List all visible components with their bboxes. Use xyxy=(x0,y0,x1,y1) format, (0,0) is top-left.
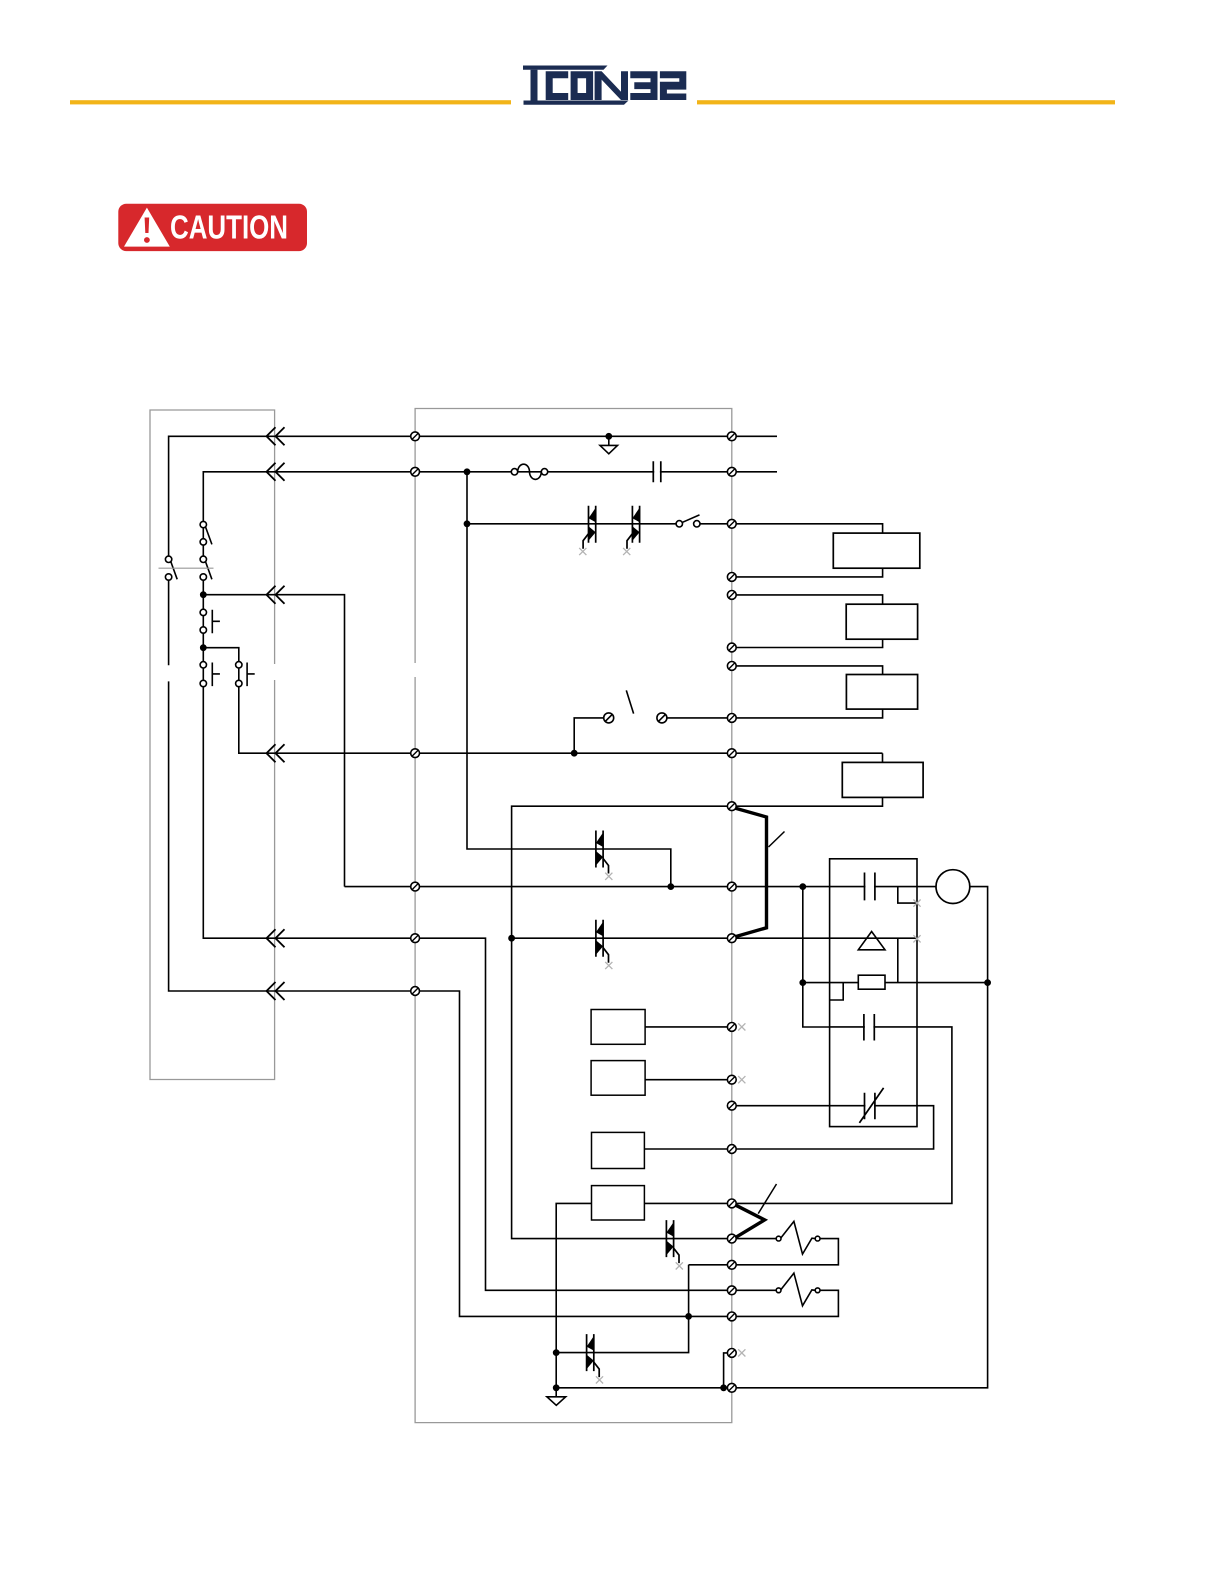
relay K3 xyxy=(846,675,917,710)
ground stem (bottom) xyxy=(555,1388,557,1397)
connector chevron (row y=991) xyxy=(267,982,285,1000)
terminal 19 xyxy=(727,1260,736,1269)
changeover blade (T10-T11, bold) xyxy=(736,808,767,936)
wire terminal row5 to T17 row xyxy=(415,938,732,1290)
terminal 9 xyxy=(727,749,736,758)
connector box J1 (grey outline, left) xyxy=(150,410,275,1080)
fuse F1 xyxy=(511,469,517,475)
wire cap jog below main row xyxy=(898,887,917,904)
triac Q6 xyxy=(587,1334,604,1383)
node: L1 ground junction xyxy=(606,434,611,439)
wire row 6 xyxy=(169,580,416,991)
module D xyxy=(592,1186,645,1220)
node: row-3 junction xyxy=(201,592,206,597)
wire T16 row and heater1 return loop xyxy=(689,1239,839,1265)
terminal L1 xyxy=(411,432,420,441)
wire relay K2 loop xyxy=(732,595,883,648)
wire main motor row, right drop and bottom return xyxy=(345,887,988,1388)
node: main row branch at x=803 xyxy=(800,884,805,889)
wire var-cap row from terminal 15 to module xyxy=(644,1106,933,1149)
switch SW1 (on triac row) xyxy=(676,521,682,527)
wire module A to terminal 13 xyxy=(645,1026,732,1028)
pushbutton PB1 xyxy=(200,609,206,615)
switch S0 (connector box, left pole) xyxy=(165,556,171,562)
terminal L2 xyxy=(411,467,420,476)
node: triac row branch junction xyxy=(464,521,469,526)
terminal L6 xyxy=(411,987,420,996)
terminal 8 xyxy=(727,714,736,723)
capacitor C3 (variable, lower) xyxy=(865,1103,874,1109)
terminal 2 xyxy=(727,467,736,476)
wire heater2 return loop xyxy=(732,1290,839,1316)
node: switch feed junction on row 4 xyxy=(572,751,577,756)
pushbutton PB3 xyxy=(236,662,242,668)
test-point triangle xyxy=(858,932,885,950)
caution triangle xyxy=(124,208,170,247)
module C xyxy=(592,1132,645,1168)
terminal 4 xyxy=(727,573,736,582)
node: triac feed junction x=511.6 xyxy=(509,936,514,941)
capacitor C4 (line row) xyxy=(654,469,660,475)
terminal L4 xyxy=(411,882,420,891)
switch S2 (right pole) xyxy=(200,556,206,562)
terminal L3 xyxy=(411,749,420,758)
wire row 5 (to left terminal) xyxy=(203,687,415,939)
wire feed to line switch xyxy=(574,718,732,753)
wire resistor row xyxy=(803,982,988,984)
switch S1 (upper) xyxy=(200,521,206,527)
wire net L1 (row 1) xyxy=(169,436,777,556)
triac Q5 xyxy=(666,1220,683,1269)
wire row 4 (through to terminal 9) xyxy=(239,687,732,754)
terminal 1 xyxy=(727,432,736,441)
node: resistor row junction left xyxy=(800,980,805,985)
wire module E left feed and ground bus xyxy=(556,1203,591,1387)
terminal 11 xyxy=(727,882,736,891)
blade actuator line xyxy=(769,832,785,848)
heater HTR2 xyxy=(776,1288,781,1293)
no-connect mark (terminal 14) xyxy=(738,1076,745,1083)
terminal 17 xyxy=(727,1199,736,1208)
wire L2 feed down to triac row and jog to main row xyxy=(467,472,671,887)
switch linkage (dashed grey) xyxy=(159,567,214,569)
wire row 3 down to main row xyxy=(203,595,344,887)
logo ICON32 xyxy=(523,66,686,105)
module B xyxy=(591,1061,645,1096)
node: resistor row junction right xyxy=(985,980,990,985)
wire terminal 10 row left, drop, T15 row via triac xyxy=(512,806,732,1238)
relay K4 xyxy=(842,762,923,797)
terminal 6 xyxy=(727,643,736,652)
triac Q4 xyxy=(596,920,613,969)
connector chevron (row y=436.3) xyxy=(267,427,285,445)
terminal 20 xyxy=(727,1286,736,1295)
triac Q1 xyxy=(579,506,596,555)
node: pushbutton branch junction xyxy=(201,645,206,650)
controller box (grey outline, right) xyxy=(415,409,732,1423)
no-connect mark (module edge upper) xyxy=(913,900,920,907)
blade actuator line 2 xyxy=(758,1184,776,1214)
terminal 22 xyxy=(727,1349,736,1358)
terminal 14 xyxy=(727,1075,736,1084)
wire terminal 20 to heater2 xyxy=(732,1289,777,1291)
terminal 5 xyxy=(727,591,736,600)
node: ground bus junction at triac row xyxy=(554,1350,559,1355)
terminal 23 xyxy=(727,1383,736,1392)
caution badge xyxy=(118,204,307,251)
node: heater drop junction on T18 row xyxy=(686,1314,691,1319)
terminal 3 xyxy=(727,519,736,528)
no-connect mark (terminal 13) xyxy=(738,1023,745,1030)
wire cap2 row, drop to terminal 17 row xyxy=(644,1027,952,1204)
terminal L5 xyxy=(411,934,420,943)
wire pushbutton branch xyxy=(203,648,239,662)
connector chevron (row y=471.8) xyxy=(267,463,285,481)
resistor R1 xyxy=(858,975,885,989)
ground stem (top) xyxy=(608,436,610,445)
wire terminal 18 to heater1 xyxy=(732,1238,777,1240)
node: step junction on bottom row xyxy=(721,1385,726,1390)
wire resistor row hook to module edge xyxy=(830,983,844,1000)
relay K2 xyxy=(846,604,917,639)
terminal 16 xyxy=(727,1145,736,1154)
terminal 7 xyxy=(727,662,736,671)
wire relay K4 loop xyxy=(732,753,883,806)
node: ground bus bottom junction xyxy=(554,1385,559,1390)
terminal 12 xyxy=(727,934,736,943)
ground (bottom, open triangle) xyxy=(547,1397,566,1406)
no-connect mark (terminal 22) xyxy=(738,1349,745,1356)
svg-text:CAUTION: CAUTION xyxy=(170,209,288,246)
terminal 15 xyxy=(727,1101,736,1110)
wire net L2 (row 2 with fuse and cap) xyxy=(203,472,777,522)
triac Q3 xyxy=(596,831,613,880)
no-connect mark (module edge lower) xyxy=(913,935,920,942)
terminal 13 xyxy=(727,1023,736,1032)
control module box (right) xyxy=(830,859,917,1127)
wire bottom triac row and riser to T18 row xyxy=(556,1265,688,1353)
terminal 10 xyxy=(727,802,736,811)
connector chevron (row y=938.2) xyxy=(267,929,285,947)
node: jog joins main row xyxy=(668,884,673,889)
caution exclamation xyxy=(145,218,150,234)
node: L2 branch junction xyxy=(464,469,469,474)
heater HTR1 xyxy=(776,1236,781,1241)
capacitor C2 (mid) xyxy=(865,1024,874,1030)
ground (top, open triangle) xyxy=(600,445,618,453)
wire terminal 22 step to bottom row xyxy=(724,1353,732,1388)
line switch SW2 (terminal style contacts) xyxy=(604,713,614,723)
wire terminal row6 to T18 row xyxy=(415,991,732,1316)
yellow rule right xyxy=(697,100,1115,104)
wire segments of stacked switch chain in connector box xyxy=(203,528,239,681)
terminal 21 xyxy=(727,1312,736,1321)
triac Q2 xyxy=(623,506,640,555)
wire x=803 drop with hook to module edge xyxy=(803,887,830,1027)
wire triac-pair row to switch and terminal 3 xyxy=(467,523,732,525)
yellow rule left xyxy=(70,100,511,104)
terminal 18 xyxy=(727,1234,736,1243)
pushbutton PB2 xyxy=(200,662,206,668)
wire triangle row from terminal 12 xyxy=(732,938,917,982)
relay K1 xyxy=(833,533,920,568)
wire triac row to terminal 11 xyxy=(512,937,732,939)
capacitor C1 (main row) xyxy=(865,884,874,890)
connector chevron (row y=594.7) xyxy=(267,586,285,604)
connector chevron (row y=753.2) xyxy=(267,744,285,762)
wire relay K1 loop xyxy=(732,524,883,577)
wire relay K3 loop xyxy=(732,666,883,718)
wire module B to terminal 14 xyxy=(645,1079,732,1081)
blade (T16-T17, bold) xyxy=(736,1205,765,1237)
motor M1 xyxy=(936,870,970,904)
module A xyxy=(591,1010,645,1045)
